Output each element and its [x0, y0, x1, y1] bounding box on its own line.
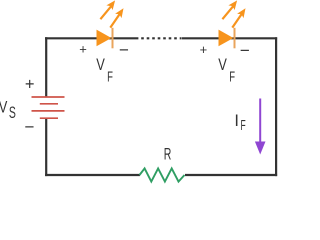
svg-text:R: R — [164, 146, 172, 164]
LED D1 cathode bar — [112, 28, 114, 49]
battery VS plate 3 (long) — [32, 110, 65, 112]
svg-text:+: + — [200, 42, 208, 57]
wire left upper (top corner to battery) — [45, 37, 47, 97]
label VF (LED D2) — [218, 56, 235, 86]
svg-text:F: F — [229, 69, 235, 86]
wire top left segment — [45, 37, 138, 39]
svg-text:+: + — [25, 75, 35, 93]
svg-text:−: − — [25, 118, 35, 137]
battery VS plate 1 (long, +) — [32, 96, 65, 98]
resistor R zigzag — [140, 168, 185, 181]
svg-text:−: − — [119, 41, 129, 60]
svg-text:V: V — [96, 56, 105, 74]
current arrow IF — [255, 99, 266, 155]
svg-text:−: − — [240, 41, 250, 60]
wire bottom right segment — [185, 174, 277, 176]
LED D1 triangle (anode) — [97, 30, 112, 47]
label VF (LED D1) — [96, 56, 113, 86]
svg-text:F: F — [241, 117, 246, 134]
LED D2 light arrow 2 — [232, 8, 245, 27]
LED D2 light arrow 1 — [222, 0, 237, 19]
LED D2 triangle (anode) — [219, 30, 234, 47]
wire dashed (series continuation) — [141, 37, 181, 39]
label IF — [234, 112, 245, 134]
wire right side — [275, 37, 277, 176]
LED D1 light arrow 1 — [100, 0, 115, 19]
svg-text:F: F — [107, 69, 113, 86]
svg-text:V: V — [218, 56, 227, 74]
svg-text:S: S — [9, 104, 16, 122]
wire left lower (battery to bottom corner) — [45, 118, 47, 176]
wire bottom left segment — [45, 174, 140, 176]
LED D1 light arrow 2 — [110, 8, 123, 27]
label VS — [0, 98, 16, 122]
svg-text:+: + — [79, 41, 87, 56]
svg-text:I: I — [234, 112, 239, 130]
battery VS plate 2 (short) — [40, 103, 58, 105]
battery VS plate 4 (short, -) — [40, 117, 58, 119]
wire top right segment — [182, 37, 277, 39]
LED D2 cathode bar — [234, 28, 236, 49]
svg-text:V: V — [0, 98, 7, 116]
